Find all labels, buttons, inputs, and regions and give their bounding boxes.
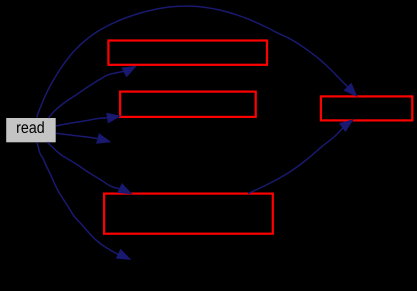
edge read->box2 <box>56 113 120 126</box>
node box2 (middle callee, red=truncated) <box>120 92 256 117</box>
node box3 (right callee, red=truncated) <box>321 96 412 120</box>
edge read->box3 (top arc) <box>37 6 357 117</box>
edge read->box1 <box>49 66 136 118</box>
node box1 (top callee, red=truncated) <box>108 41 267 65</box>
edge read->hidden-node-B (down arc) <box>37 142 130 259</box>
edge read->box4 <box>48 142 132 194</box>
edge box4->box3 <box>248 120 353 194</box>
node read (current function, grey) <box>6 118 56 142</box>
edge read->hidden-node-A <box>56 133 110 143</box>
node box4 (bottom callee, red=truncated, two-line) <box>104 194 273 234</box>
